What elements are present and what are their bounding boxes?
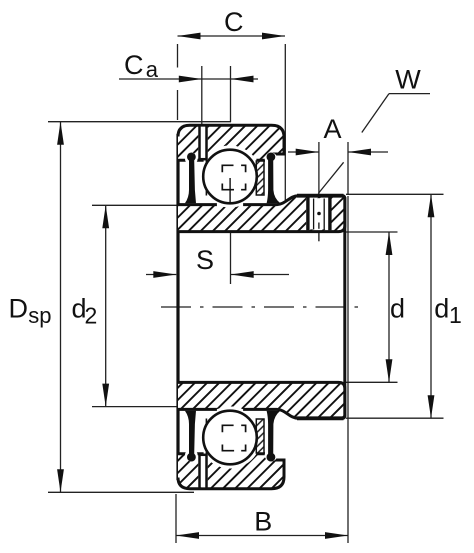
svg-text:C: C <box>124 50 144 80</box>
svg-text:d: d <box>390 294 405 324</box>
svg-text:C: C <box>224 7 244 37</box>
svg-text:W: W <box>395 65 421 95</box>
svg-text:a: a <box>146 57 159 82</box>
svg-text:D: D <box>9 293 29 323</box>
svg-text:d: d <box>434 294 449 324</box>
svg-text:A: A <box>324 114 342 144</box>
svg-text:B: B <box>254 507 272 537</box>
svg-text:sp: sp <box>28 303 51 328</box>
svg-text:1: 1 <box>449 302 462 328</box>
svg-text:2: 2 <box>85 303 98 329</box>
svg-text:S: S <box>196 245 214 275</box>
